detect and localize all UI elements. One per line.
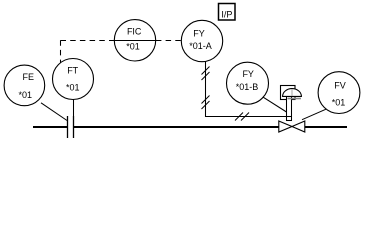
wire FT to orifice [73, 99, 75, 116]
svg-text:I/P: I/P [221, 10, 232, 20]
pneumatic slashes vertical pair 1 [202, 67, 210, 81]
instrument FE *01 [4, 65, 45, 106]
wire FY-B leader to positioner [263, 97, 287, 112]
pipe [33, 126, 347, 128]
svg-text:*01: *01 [18, 90, 32, 100]
I/P box [219, 4, 236, 21]
dome stem centerline [291, 90, 293, 97]
instrument FV *01 [318, 72, 360, 114]
positioner box [281, 86, 296, 100]
wire FV leader [302, 109, 326, 120]
wire pneumatic FY-A down [206, 61, 287, 116]
svg-text:FIC: FIC [127, 26, 142, 36]
svg-text:*01: *01 [66, 83, 80, 93]
orifice plate FE [68, 116, 74, 138]
svg-text:FY: FY [193, 28, 205, 38]
svg-text:FV: FV [334, 80, 346, 90]
actuator diaphragm dome [283, 89, 302, 97]
svg-text:*01-B: *01-B [236, 82, 259, 92]
svg-text:FT: FT [67, 66, 78, 76]
instrument FT *01 [53, 59, 94, 100]
wire dashed FT to FIC [61, 40, 115, 63]
svg-text:*01: *01 [332, 97, 346, 107]
instrument FIC *01 [114, 20, 155, 61]
pneumatic slashes horizontal pair [235, 113, 249, 121]
wire dashed FIC to FY-A [156, 40, 181, 42]
control valve body [279, 121, 305, 132]
svg-text:FY: FY [242, 69, 254, 79]
instrument FY *01-A [181, 20, 222, 61]
dome shadow line [288, 98, 302, 100]
pneumatic slashes vertical pair 2 [202, 96, 210, 110]
svg-text:*01-A: *01-A [189, 41, 212, 51]
instrument FY *01-B [227, 62, 269, 104]
wire pneumatic into stem [287, 116, 292, 118]
wire FE leader [41, 103, 67, 121]
svg-text:FE: FE [23, 72, 35, 82]
valve stem [287, 97, 292, 121]
svg-text:*01: *01 [126, 42, 140, 52]
